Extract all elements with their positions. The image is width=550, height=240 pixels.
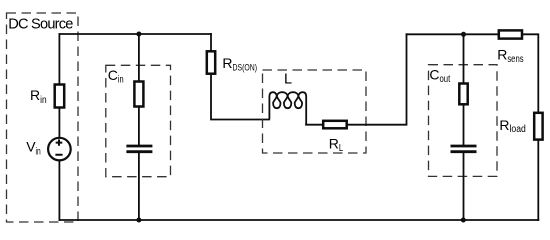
dashed box C_in <box>106 65 171 176</box>
svg-text:RDS(ON): RDS(ON) <box>222 55 257 73</box>
wire <box>463 153 465 220</box>
wire to R_DS(ON) <box>210 34 212 51</box>
wire to right edge and down <box>522 34 538 113</box>
junction top C_in <box>136 32 141 37</box>
svg-text:L: L <box>284 72 292 88</box>
junction top C_out <box>461 32 466 37</box>
wire <box>537 140 539 220</box>
junction bottom C_out <box>461 218 466 223</box>
svg-text:RL: RL <box>329 135 344 154</box>
svg-text:Rload: Rload <box>499 117 525 135</box>
resistor C_out ESR <box>459 84 467 105</box>
resistor C_in ESR <box>134 82 143 107</box>
svg-text:Vin: Vin <box>26 138 41 157</box>
wire down and right to L <box>211 74 269 120</box>
wire V_in branch upper <box>58 34 60 84</box>
wire <box>138 107 140 145</box>
svg-text:DC Source: DC Source <box>8 16 73 32</box>
wire top rail left <box>59 33 211 35</box>
svg-text:Rsens: Rsens <box>497 46 523 65</box>
wire <box>138 153 140 220</box>
dashed box L R_L <box>263 70 367 153</box>
wire right and up <box>347 34 407 124</box>
wire <box>58 160 60 220</box>
dashed box DC Source <box>7 13 79 222</box>
source V_in <box>48 138 71 161</box>
resistor R_DS(ON) <box>207 51 215 73</box>
resistor R_sens <box>499 30 522 38</box>
wire <box>306 124 323 126</box>
svg-text:Rin: Rin <box>30 87 47 106</box>
wire C_out branch <box>463 34 465 83</box>
wire <box>58 108 60 137</box>
dashed box C_out <box>429 65 498 177</box>
resistor R_load <box>534 113 542 140</box>
svg-text:Cin: Cin <box>108 67 124 86</box>
svg-text:Cout: Cout <box>429 67 450 85</box>
inductor L <box>269 92 306 125</box>
wire <box>463 104 465 144</box>
capacitor C_in <box>126 146 152 152</box>
resistor R_in <box>55 85 64 108</box>
junction bottom C_in <box>136 218 141 223</box>
resistor R_L <box>323 121 347 129</box>
wire bottom rail <box>59 219 538 221</box>
capacitor C_out <box>451 146 477 152</box>
wire top rail right <box>407 33 499 35</box>
wire C_in branch <box>138 34 140 81</box>
